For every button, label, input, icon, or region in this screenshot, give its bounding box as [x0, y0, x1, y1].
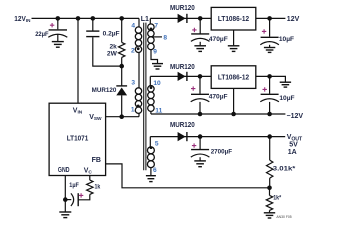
svg-text:2: 2 — [131, 48, 135, 55]
svg-text:10: 10 — [153, 80, 161, 87]
svg-text:1k*: 1k* — [273, 195, 281, 202]
svg-text:−12V: −12V — [287, 113, 304, 120]
svg-text:0.2µF: 0.2µF — [103, 31, 120, 38]
svg-text:5: 5 — [155, 141, 159, 148]
svg-text:L1: L1 — [141, 16, 149, 23]
svg-text:8: 8 — [163, 35, 167, 42]
svg-text:1: 1 — [131, 107, 135, 114]
svg-text:6: 6 — [153, 167, 157, 174]
svg-text:470µF: 470µF — [209, 36, 228, 43]
svg-text:MUR120: MUR120 — [170, 5, 195, 12]
svg-text:1µF: 1µF — [69, 182, 79, 189]
svg-text:FB: FB — [92, 157, 101, 164]
svg-text:9: 9 — [153, 48, 157, 55]
svg-text:GND: GND — [58, 167, 70, 174]
svg-text:22µF: 22µF — [35, 31, 48, 38]
svg-text:MUR120: MUR120 — [170, 122, 195, 129]
svg-text:7: 7 — [154, 23, 158, 30]
svg-text:LT1071: LT1071 — [67, 136, 89, 143]
svg-text:1k: 1k — [95, 184, 101, 191]
svg-text:2700µF: 2700µF — [211, 148, 232, 155]
svg-text:AN30 F05: AN30 F05 — [276, 215, 291, 219]
svg-text:MUR120: MUR120 — [170, 64, 195, 71]
svg-text:3.01k*: 3.01k* — [273, 165, 296, 172]
svg-text:4: 4 — [131, 23, 135, 30]
svg-text:5V: 5V — [289, 142, 298, 149]
svg-text:10µF: 10µF — [279, 95, 294, 102]
svg-text:MUR120: MUR120 — [92, 87, 117, 94]
svg-text:11: 11 — [155, 108, 162, 115]
svg-text:1A: 1A — [288, 149, 297, 156]
svg-text:12V: 12V — [287, 16, 300, 23]
svg-text:12VIN: 12VIN — [14, 16, 31, 23]
svg-text:LT1086-12: LT1086-12 — [218, 14, 249, 23]
svg-text:2W: 2W — [107, 50, 118, 57]
svg-text:LT1086-12: LT1086-12 — [218, 73, 249, 82]
svg-text:3: 3 — [131, 80, 135, 87]
svg-text:10µF: 10µF — [279, 36, 294, 43]
svg-text:470µF: 470µF — [209, 94, 228, 101]
